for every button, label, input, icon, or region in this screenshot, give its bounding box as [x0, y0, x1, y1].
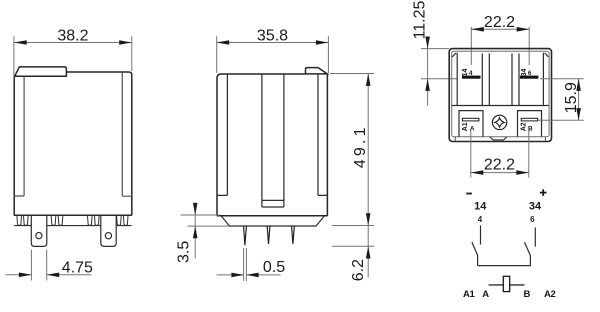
dimension 15.9	[538, 79, 584, 121]
arrow bottom 3.5	[193, 226, 198, 238]
arrow right 22.2 top	[517, 27, 530, 32]
dimension line 38.2	[14, 42, 132, 44]
base pegs front	[17, 216, 128, 226]
arrow right 35.8	[316, 40, 329, 45]
arrow right 38.2	[119, 40, 132, 45]
svg-text:A1: A1	[463, 289, 475, 300]
arrow right 22.2 bottom	[516, 170, 529, 175]
polarity minus	[466, 193, 472, 195]
svg-text:14: 14	[474, 200, 487, 212]
pin 3 side	[292, 226, 295, 244]
svg-text:6: 6	[530, 215, 535, 224]
arrow top 49.1	[366, 74, 371, 86]
middle slot side	[262, 74, 284, 207]
arrow bottom 15.9	[576, 108, 581, 120]
arrow left 22.2 bottom	[471, 170, 484, 175]
blade slot 34 (filled)	[520, 76, 539, 79]
base trapezoid side	[222, 216, 325, 226]
arrow left 38.2	[14, 40, 27, 45]
svg-text:22.2: 22.2	[484, 157, 515, 174]
arrow bottom 11.25	[425, 79, 430, 91]
arrow left 35.8	[217, 40, 230, 45]
inner case line right side	[318, 74, 327, 195]
svg-text:4.75: 4.75	[62, 259, 93, 276]
chamber wall left	[452, 53, 457, 106]
coil block A2	[518, 111, 542, 137]
svg-text:6.2: 6.2	[350, 259, 367, 281]
arrow top 15.9	[576, 79, 581, 91]
contact lead 14	[480, 225, 482, 244]
pin 1 side	[244, 226, 247, 245]
slot walls right pair	[512, 53, 519, 105]
slot walls left pair	[482, 53, 489, 105]
contact blade 14	[472, 242, 478, 266]
dimension 3.5	[181, 203, 229, 259]
common rail	[478, 265, 531, 267]
divider line bottom view	[452, 105, 549, 107]
svg-text:4: 4	[469, 70, 473, 77]
pin 2 side	[267, 226, 270, 244]
svg-text:4: 4	[478, 215, 483, 224]
dimension 22.2 top	[471, 27, 529, 65]
svg-text:A2: A2	[521, 122, 528, 131]
top tab front	[15, 67, 67, 76]
inner case line left side	[217, 74, 227, 195]
arrow left 0.5	[231, 273, 243, 278]
faston blade terminal left	[31, 216, 47, 247]
chamber wall right	[543, 53, 548, 106]
faston blade terminal right	[101, 216, 116, 247]
extension line left of 38.2	[13, 36, 15, 76]
svg-text:14: 14	[462, 69, 469, 77]
inner case line left	[14, 76, 24, 196]
svg-text:49.1: 49.1	[352, 124, 369, 168]
dimension 49.1	[330, 74, 374, 226]
coil slot A2	[521, 118, 538, 121]
relay case outline side	[217, 74, 328, 216]
dimension line 35.8	[217, 42, 329, 44]
corner wall tick right	[544, 137, 546, 141]
contact blade 34	[525, 242, 531, 265]
extension line right of 35.8	[327, 36, 329, 73]
svg-text:0.5: 0.5	[263, 259, 285, 276]
dimension 0.5	[217, 248, 281, 281]
arrow bottom 49.1	[366, 213, 371, 225]
svg-text:15.9: 15.9	[563, 82, 580, 113]
svg-text:34: 34	[529, 200, 542, 212]
polarity plus	[540, 189, 547, 196]
arrow top 11.25	[425, 37, 430, 49]
contact lead 34	[534, 228, 536, 247]
svg-text:6: 6	[528, 70, 532, 77]
arrow right 4.75	[47, 273, 60, 278]
dimension 11.25	[421, 38, 457, 106]
arrow left 4.75	[19, 273, 32, 278]
case outline bottom view	[449, 49, 551, 142]
inner case wall bottom view	[452, 51, 549, 137]
svg-text:3.5: 3.5	[176, 241, 193, 263]
svg-text:A1: A1	[462, 122, 469, 131]
arrow right 0.5	[246, 273, 258, 278]
blade slot 14 (filled)	[462, 76, 481, 79]
corner wall tick left	[454, 137, 456, 141]
arrow left 22.2 top	[471, 27, 484, 32]
extension line right of 38.2	[131, 36, 133, 71]
svg-text:22.2: 22.2	[484, 14, 515, 31]
coil element	[503, 276, 509, 291]
extension line left of 35.8	[216, 36, 218, 73]
arrow top 3.5	[193, 203, 198, 215]
dimension 6.2	[332, 226, 374, 278]
svg-text:A2: A2	[544, 289, 555, 300]
base bottom edge front	[14, 225, 131, 227]
svg-text:38.2: 38.2	[57, 28, 88, 45]
inner case line right	[122, 72, 132, 196]
svg-text:B: B	[524, 289, 531, 300]
coil block A1	[459, 111, 483, 137]
arrow 6.2	[366, 246, 371, 258]
dimension 4.75	[6, 250, 92, 281]
relay case outline front	[14, 72, 132, 215]
coil slot A1	[462, 118, 479, 121]
screw head	[492, 115, 506, 129]
bottom notch	[490, 137, 507, 140]
svg-text:11.25: 11.25	[412, 0, 429, 39]
svg-text:A: A	[482, 289, 489, 300]
top clip tab side	[306, 68, 328, 74]
coil wire	[489, 284, 525, 286]
svg-text:34: 34	[521, 69, 528, 77]
svg-text:35.8: 35.8	[257, 28, 288, 45]
dimension 22.2 bottom	[471, 131, 529, 178]
